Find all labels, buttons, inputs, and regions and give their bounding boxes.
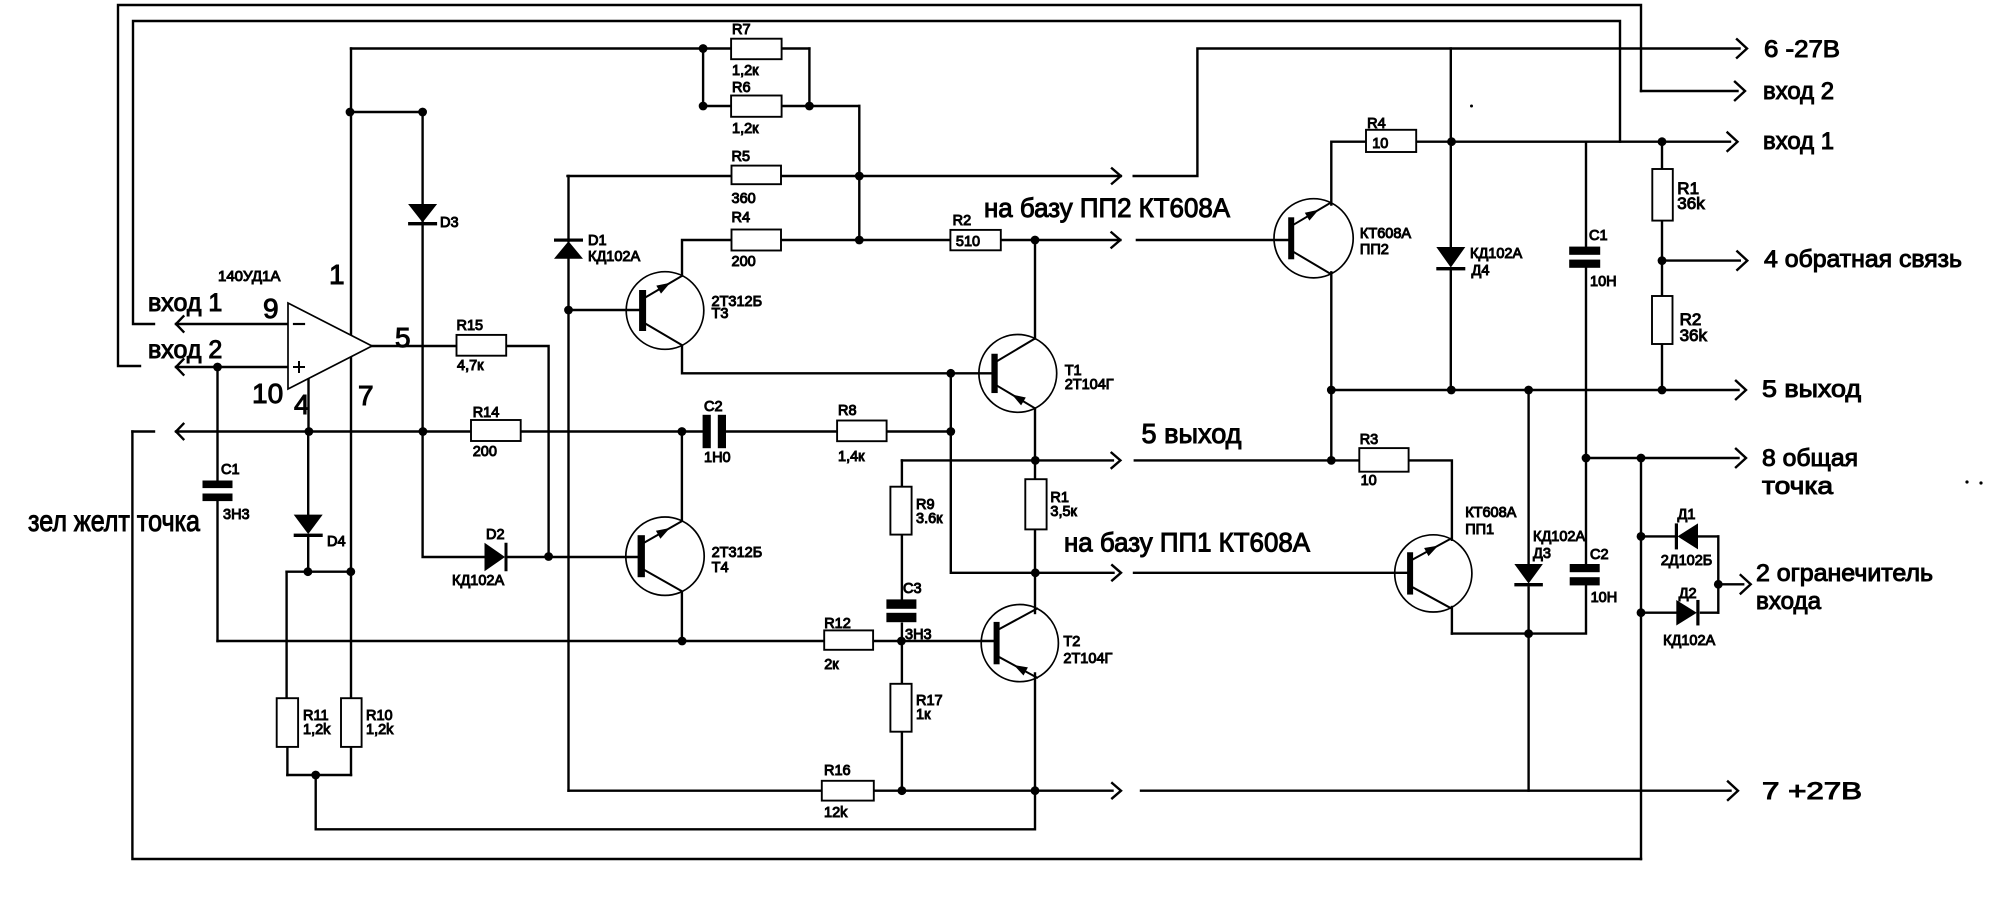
svg-text:КД102А: КД102А <box>1663 633 1715 649</box>
svg-text:вход 2: вход 2 <box>1763 78 1834 105</box>
svg-text:C1: C1 <box>1589 228 1608 244</box>
svg-text:5 выход: 5 выход <box>1762 376 1861 403</box>
svg-text:4,7к: 4,7к <box>457 358 484 374</box>
svg-text:1,2k: 1,2k <box>366 722 394 738</box>
svg-text:КД102А: КД102А <box>1470 246 1522 262</box>
svg-text:510: 510 <box>956 234 980 250</box>
svg-text:1,2к: 1,2к <box>732 63 759 79</box>
svg-text:на базу ПП2 КТ608А: на базу ПП2 КТ608А <box>984 193 1230 223</box>
svg-text:D2: D2 <box>486 527 505 543</box>
svg-text:R3: R3 <box>1360 432 1379 448</box>
svg-text:вход 1: вход 1 <box>1763 128 1834 155</box>
svg-text:36k: 36k <box>1680 326 1708 345</box>
svg-text:Т4: Т4 <box>712 560 729 576</box>
svg-text:8 общая: 8 общая <box>1762 445 1858 472</box>
svg-text:3Н3: 3Н3 <box>223 507 250 523</box>
svg-text:КТ608А: КТ608А <box>1465 505 1516 521</box>
svg-text:3,5к: 3,5к <box>1050 504 1077 520</box>
svg-text:ПП1: ПП1 <box>1465 522 1494 538</box>
svg-text:D3: D3 <box>440 215 459 231</box>
svg-text:10: 10 <box>1372 136 1388 152</box>
svg-text:36k: 36k <box>1677 194 1705 213</box>
svg-text:C3: C3 <box>903 581 922 597</box>
svg-text:9: 9 <box>263 293 279 324</box>
svg-text:вход 1: вход 1 <box>148 289 222 317</box>
svg-text:200: 200 <box>732 254 756 270</box>
svg-text:R6: R6 <box>732 80 751 96</box>
svg-text:1к: 1к <box>916 707 931 723</box>
svg-text:Д4: Д4 <box>1472 263 1490 279</box>
svg-text:200: 200 <box>473 444 497 460</box>
svg-text:5: 5 <box>395 322 411 353</box>
svg-text:1Н0: 1Н0 <box>704 450 731 466</box>
svg-text:2 огранечитель: 2 огранечитель <box>1756 560 1933 587</box>
svg-text:Д1: Д1 <box>1678 507 1696 523</box>
svg-text:4 обратная связь: 4 обратная связь <box>1764 246 1962 273</box>
svg-text:R5: R5 <box>732 149 751 165</box>
svg-text:7 +27В: 7 +27В <box>1762 778 1862 805</box>
svg-text:2к: 2к <box>824 657 839 673</box>
svg-text:R14: R14 <box>473 405 500 421</box>
svg-text:Т3: Т3 <box>712 306 729 322</box>
svg-text:1,4к: 1,4к <box>838 449 865 465</box>
svg-text:3Н3: 3Н3 <box>905 627 932 643</box>
svg-text:R4: R4 <box>1367 116 1386 132</box>
svg-text:точка: точка <box>1762 473 1834 500</box>
svg-text:10: 10 <box>252 378 283 409</box>
svg-text:4: 4 <box>294 389 310 420</box>
svg-text:КД102А: КД102А <box>452 573 504 589</box>
svg-text:D1: D1 <box>588 233 607 249</box>
svg-text:R16: R16 <box>824 763 851 779</box>
svg-text:R12: R12 <box>824 616 851 632</box>
svg-text:10: 10 <box>1361 473 1377 489</box>
svg-text:2Т104Г: 2Т104Г <box>1065 377 1114 393</box>
svg-text:C1: C1 <box>221 462 240 478</box>
svg-text:R8: R8 <box>838 403 857 419</box>
svg-text:КД102А: КД102А <box>1533 529 1585 545</box>
svg-text:2Д102Б: 2Д102Б <box>1661 553 1713 569</box>
svg-text:10Н: 10Н <box>1590 274 1617 290</box>
svg-text:2Т104Г: 2Т104Г <box>1063 651 1112 667</box>
svg-text:6 -27В: 6 -27В <box>1764 36 1840 63</box>
svg-text:R15: R15 <box>457 318 484 334</box>
svg-text:Д2: Д2 <box>1679 586 1697 602</box>
svg-text:входа: входа <box>1756 588 1822 615</box>
svg-text:C2: C2 <box>704 399 723 415</box>
svg-text:вход 2: вход 2 <box>148 336 222 364</box>
svg-text:ПП2: ПП2 <box>1360 242 1389 258</box>
svg-text:на базу ПП1 КТ608А: на базу ПП1 КТ608А <box>1064 528 1310 558</box>
svg-text:12k: 12k <box>824 805 848 821</box>
svg-text:R4: R4 <box>732 210 751 226</box>
svg-text:10Н: 10Н <box>1591 590 1618 606</box>
svg-text:КТ608А: КТ608А <box>1360 226 1411 242</box>
svg-text:1: 1 <box>329 259 345 290</box>
svg-text:140УД1А: 140УД1А <box>218 268 280 285</box>
svg-text:R2: R2 <box>953 213 972 229</box>
svg-text:D4: D4 <box>327 534 346 550</box>
svg-text:зел желт точка: зел желт точка <box>28 505 200 538</box>
svg-text:3.6к: 3.6к <box>916 511 943 527</box>
svg-text:1,2к: 1,2к <box>732 121 759 137</box>
svg-text:5 выход: 5 выход <box>1142 418 1242 449</box>
svg-text:C2: C2 <box>1590 547 1609 563</box>
svg-text:Д3: Д3 <box>1533 546 1551 562</box>
svg-text:360: 360 <box>732 191 756 207</box>
svg-text:КД102А: КД102А <box>588 249 640 265</box>
svg-text:2Т312Б: 2Т312Б <box>712 545 763 561</box>
svg-text:1,2k: 1,2k <box>303 722 331 738</box>
svg-text:7: 7 <box>358 380 374 411</box>
svg-text:Т2: Т2 <box>1063 634 1080 650</box>
svg-text:R7: R7 <box>732 22 751 38</box>
